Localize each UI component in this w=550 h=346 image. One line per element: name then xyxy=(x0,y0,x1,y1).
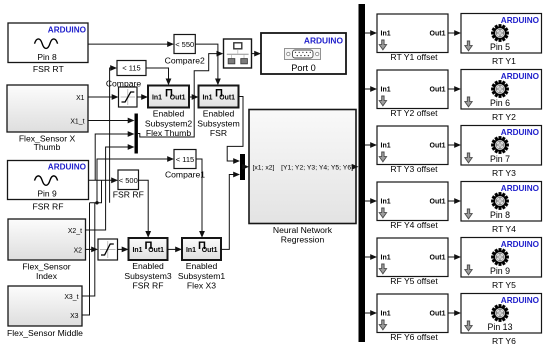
svg-text:Π: Π xyxy=(198,240,206,252)
svg-text:FSR RF: FSR RF xyxy=(113,190,144,200)
block Enabled Subsystem3 FSR RF xyxy=(124,238,172,290)
block RT Y5 Arduino PWM output Pin 9 xyxy=(461,238,542,290)
block FSR RF compare (&lt; 500) xyxy=(113,170,144,200)
block RT Y3 offset subsystem xyxy=(377,126,448,174)
svg-text:ARDUINO: ARDUINO xyxy=(304,36,344,46)
svg-text:In1: In1 xyxy=(381,199,391,206)
svg-text:In1: In1 xyxy=(381,143,391,150)
block Enabled Subsystem FSR xyxy=(197,86,240,138)
svg-text:ARDUINO: ARDUINO xyxy=(48,25,87,34)
svg-text:Thumb: Thumb xyxy=(34,142,61,152)
svg-text:RF Y4 offset: RF Y4 offset xyxy=(390,220,438,230)
wire riser to Compare1 input xyxy=(97,159,168,203)
svg-text:Flex_Sensor: Flex_Sensor xyxy=(22,261,70,271)
svg-text:Out1: Out1 xyxy=(430,311,446,318)
svg-text:RF Y5 offset: RF Y5 offset xyxy=(390,276,438,286)
block Compare2 (&lt; 550) xyxy=(165,35,205,66)
wire Subsystem3 Out1 to Subsystem1 In1 xyxy=(168,248,176,250)
svg-text:FSR RF: FSR RF xyxy=(32,201,63,211)
wire junction horizontal link xyxy=(90,180,102,203)
wire X1_t to Mux1 input 1 xyxy=(88,120,128,122)
svg-text:ARDUINO: ARDUINO xyxy=(501,184,540,193)
svg-text:RT Y2: RT Y2 xyxy=(492,112,516,122)
demux (6 outputs Y1..Y6) xyxy=(359,4,366,342)
svg-text:Enabled: Enabled xyxy=(186,261,218,271)
wire &lt; 500 out to Subsystem3 enable xyxy=(139,180,149,232)
wire splitter to Port 0 xyxy=(252,53,255,55)
block RT Y6 Arduino PWM output Pin 13 xyxy=(461,294,542,346)
node junction Compare2/splitter xyxy=(216,52,219,55)
wire RT Y3 offset Out1 to RT Y3 xyxy=(448,144,455,146)
wire Saturation to Subsystem2 In1 xyxy=(137,96,142,98)
block Flex_Sensor Middle subsystem xyxy=(7,286,83,338)
svg-text:[Y1; Y2; Y3; Y4; Y5; Y6]: [Y1; Y2; Y3; Y4; Y5; Y6] xyxy=(281,164,353,171)
svg-text:Enabled: Enabled xyxy=(153,109,185,119)
svg-text:Index: Index xyxy=(36,271,58,281)
svg-text:Pin 8: Pin 8 xyxy=(490,210,510,220)
svg-text:X1: X1 xyxy=(76,95,85,102)
wire Compare2 out to splitter and branch to FSR enable xyxy=(195,44,218,79)
svg-text:Out1: Out1 xyxy=(430,255,446,262)
wire demux to RF Y4 offset In1 xyxy=(365,200,371,202)
svg-text:RT Y1: RT Y1 xyxy=(492,56,516,66)
wire X1 to Saturation xyxy=(88,96,112,98)
svg-text:FSR RF: FSR RF xyxy=(132,280,163,290)
svg-text:< 115: < 115 xyxy=(176,155,194,164)
svg-text:In1: In1 xyxy=(186,247,196,254)
svg-text:In1: In1 xyxy=(381,255,391,262)
wire demux to RT Y2 offset In1 xyxy=(365,88,371,90)
svg-text:In1: In1 xyxy=(203,94,213,101)
svg-text:Out1: Out1 xyxy=(430,87,446,94)
svg-text:Out1: Out1 xyxy=(430,31,446,38)
svg-text:Pin 9: Pin 9 xyxy=(37,188,57,198)
mux Mux2 (x1,x2 into NN) xyxy=(240,154,245,180)
svg-text:RF Y6 offset: RF Y6 offset xyxy=(390,332,438,342)
node junction lower bundle xyxy=(95,201,98,204)
svg-text:ARDUINO: ARDUINO xyxy=(48,162,87,171)
block Saturation (upper) xyxy=(119,87,138,107)
svg-text:In1: In1 xyxy=(133,247,143,254)
svg-text:In1: In1 xyxy=(152,94,162,101)
svg-text:ARDUINO: ARDUINO xyxy=(501,128,540,137)
svg-text:ARDUINO: ARDUINO xyxy=(501,240,540,249)
svg-text:Pin 13: Pin 13 xyxy=(488,322,513,332)
svg-text:Π: Π xyxy=(165,88,173,100)
svg-text:Enabled: Enabled xyxy=(132,261,164,271)
block RT Y4 Arduino PWM output Pin 8 xyxy=(461,182,542,234)
block RF Y4 offset subsystem xyxy=(377,182,448,230)
wire demux to RF Y5 offset In1 xyxy=(365,256,371,258)
wire lower Saturation to Subsystem3 In1 xyxy=(118,248,123,250)
svg-text:In1: In1 xyxy=(381,311,391,318)
svg-text:In1: In1 xyxy=(381,31,391,38)
block Compare (&lt; 115) upper relational operator xyxy=(106,61,146,89)
svg-text:Out1: Out1 xyxy=(430,143,446,150)
wire RF Y4 offset Out1 to RT Y4 xyxy=(448,200,455,202)
wire X2 to lower Saturation xyxy=(86,248,92,250)
svg-text:RT Y5: RT Y5 xyxy=(492,280,516,290)
svg-text:FSR RT: FSR RT xyxy=(33,64,65,74)
wire Subsystem1 Out1 to Mux2 input 2 xyxy=(221,175,234,250)
svg-text:ARDUINO: ARDUINO xyxy=(501,72,540,81)
wire Mux2 to Neural Network input xyxy=(243,166,246,168)
wire Subsystem2 Out1 to Subsystem FSR In1 xyxy=(189,96,192,98)
wire X3 riser xyxy=(82,203,90,315)
wire FSR RF branch riser to Mux1 input 2 xyxy=(95,134,128,180)
svg-text:FSR: FSR xyxy=(210,128,227,138)
wire riser into upper Compare (&lt; 115) xyxy=(109,68,112,203)
svg-text:Compare2: Compare2 xyxy=(165,55,205,65)
wire X2_t riser to Mux1 input 3 xyxy=(86,147,129,230)
wire RT Y1 offset Out1 to RT Y1 xyxy=(448,32,455,34)
mux Mux1 (3 sensor signals) xyxy=(135,114,138,154)
svg-text:X1_t: X1_t xyxy=(70,118,84,125)
wire RT Y2 offset Out1 to RT Y2 xyxy=(448,88,455,90)
svg-text:Flex Thumb: Flex Thumb xyxy=(146,128,191,138)
block Flex_Sensor Index subsystem xyxy=(8,219,86,281)
wire FSR RF out to &lt; 500 xyxy=(89,179,112,181)
wire demux to RT Y1 offset In1 xyxy=(365,32,371,34)
svg-text:ARDUINO: ARDUINO xyxy=(501,16,540,25)
block Flex_Sensor X Thumb subsystem xyxy=(7,85,88,152)
block Saturation (lower) xyxy=(98,239,118,260)
wire NN output to demux xyxy=(352,166,356,168)
svg-text:Flex X3: Flex X3 xyxy=(187,280,216,290)
wire Subsystem FSR Out1 to Mux2 input 1 xyxy=(227,97,243,162)
block Enabled Subsystem2 Flex Thumb xyxy=(145,86,193,138)
svg-text:RT Y3 offset: RT Y3 offset xyxy=(390,164,438,174)
block Neural Network Regression xyxy=(249,110,356,245)
block RF Y5 offset subsystem xyxy=(377,238,448,286)
block Compare1 (&lt; 115) lower xyxy=(165,150,205,180)
svg-text:Pin 8: Pin 8 xyxy=(37,52,57,62)
svg-text:RT Y6: RT Y6 xyxy=(492,336,516,346)
svg-text:In1: In1 xyxy=(381,87,391,94)
svg-text:X2_t: X2_t xyxy=(68,228,82,235)
svg-text:Enabled: Enabled xyxy=(203,109,235,119)
block FSR RT (Arduino analog input Pin 8) xyxy=(8,23,88,74)
svg-text:RT Y1 offset: RT Y1 offset xyxy=(390,52,438,62)
wire Compare out to Subsystem2 enable xyxy=(146,68,169,80)
svg-text:RT Y3: RT Y3 xyxy=(492,168,516,178)
svg-text:< 550: < 550 xyxy=(175,40,194,49)
block RF Y6 offset subsystem xyxy=(377,294,448,342)
svg-text:RT Y2 offset: RT Y2 offset xyxy=(390,108,438,118)
svg-text:Pin 6: Pin 6 xyxy=(490,98,510,108)
svg-text:[x1; x2]: [x1; x2] xyxy=(253,164,275,171)
block RT Y2 Arduino PWM output Pin 6 xyxy=(461,70,542,122)
svg-text:Pin 9: Pin 9 xyxy=(490,266,510,276)
svg-text:Subsystem2: Subsystem2 xyxy=(145,118,193,128)
svg-text:Regression: Regression xyxy=(281,234,325,244)
svg-text:Out1: Out1 xyxy=(430,199,446,206)
svg-text:Port 0: Port 0 xyxy=(291,63,316,73)
wire RF Y6 offset Out1 to RT Y6 xyxy=(448,312,455,314)
block Arduino Serial Port 0 xyxy=(261,33,346,74)
block RT Y2 offset subsystem xyxy=(377,70,448,118)
svg-text:RT Y4: RT Y4 xyxy=(492,224,516,234)
wire RF Y5 offset Out1 to RT Y5 xyxy=(448,256,455,258)
svg-text:X3_t: X3_t xyxy=(64,294,78,301)
block RT Y1 Arduino PWM output Pin 5 xyxy=(461,14,542,66)
block serial splitter subsystem (icon block before Port 0) xyxy=(224,39,252,68)
wire Mux1 output up to splitter input xyxy=(138,54,217,137)
svg-text:Flex_Sensor Middle: Flex_Sensor Middle xyxy=(7,328,83,338)
wire X3_t riser xyxy=(82,203,95,296)
wire FSR RT to Compare2 xyxy=(88,43,168,45)
svg-text:Subsystem1: Subsystem1 xyxy=(178,271,226,281)
svg-text:X3: X3 xyxy=(70,313,79,320)
block Enabled Subsystem1 Flex X3 xyxy=(178,238,226,290)
svg-text:Subsystem3: Subsystem3 xyxy=(124,271,172,281)
svg-text:Π: Π xyxy=(145,240,153,252)
svg-text:Subsystem: Subsystem xyxy=(197,118,240,128)
svg-text:< 115: < 115 xyxy=(122,64,140,73)
block RT Y3 Arduino PWM output Pin 7 xyxy=(461,126,542,178)
svg-text:Neural Network: Neural Network xyxy=(273,225,333,235)
block RT Y1 offset subsystem xyxy=(377,14,448,62)
svg-text:X2: X2 xyxy=(74,248,83,255)
svg-text:< 500: < 500 xyxy=(119,176,138,185)
svg-text:Pin 5: Pin 5 xyxy=(490,42,510,52)
wire demux to RF Y6 offset In1 xyxy=(365,312,371,314)
wire demux to RT Y3 offset In1 xyxy=(365,144,371,146)
svg-text:Pin 7: Pin 7 xyxy=(490,154,510,164)
block FSR RF (Arduino analog input Pin 9) xyxy=(8,161,89,212)
wire Compare1 out to Subsystem1 enable xyxy=(196,159,202,232)
svg-text:ARDUINO: ARDUINO xyxy=(501,296,540,305)
svg-text:Π: Π xyxy=(215,88,223,100)
svg-text:Compare1: Compare1 xyxy=(165,170,205,180)
